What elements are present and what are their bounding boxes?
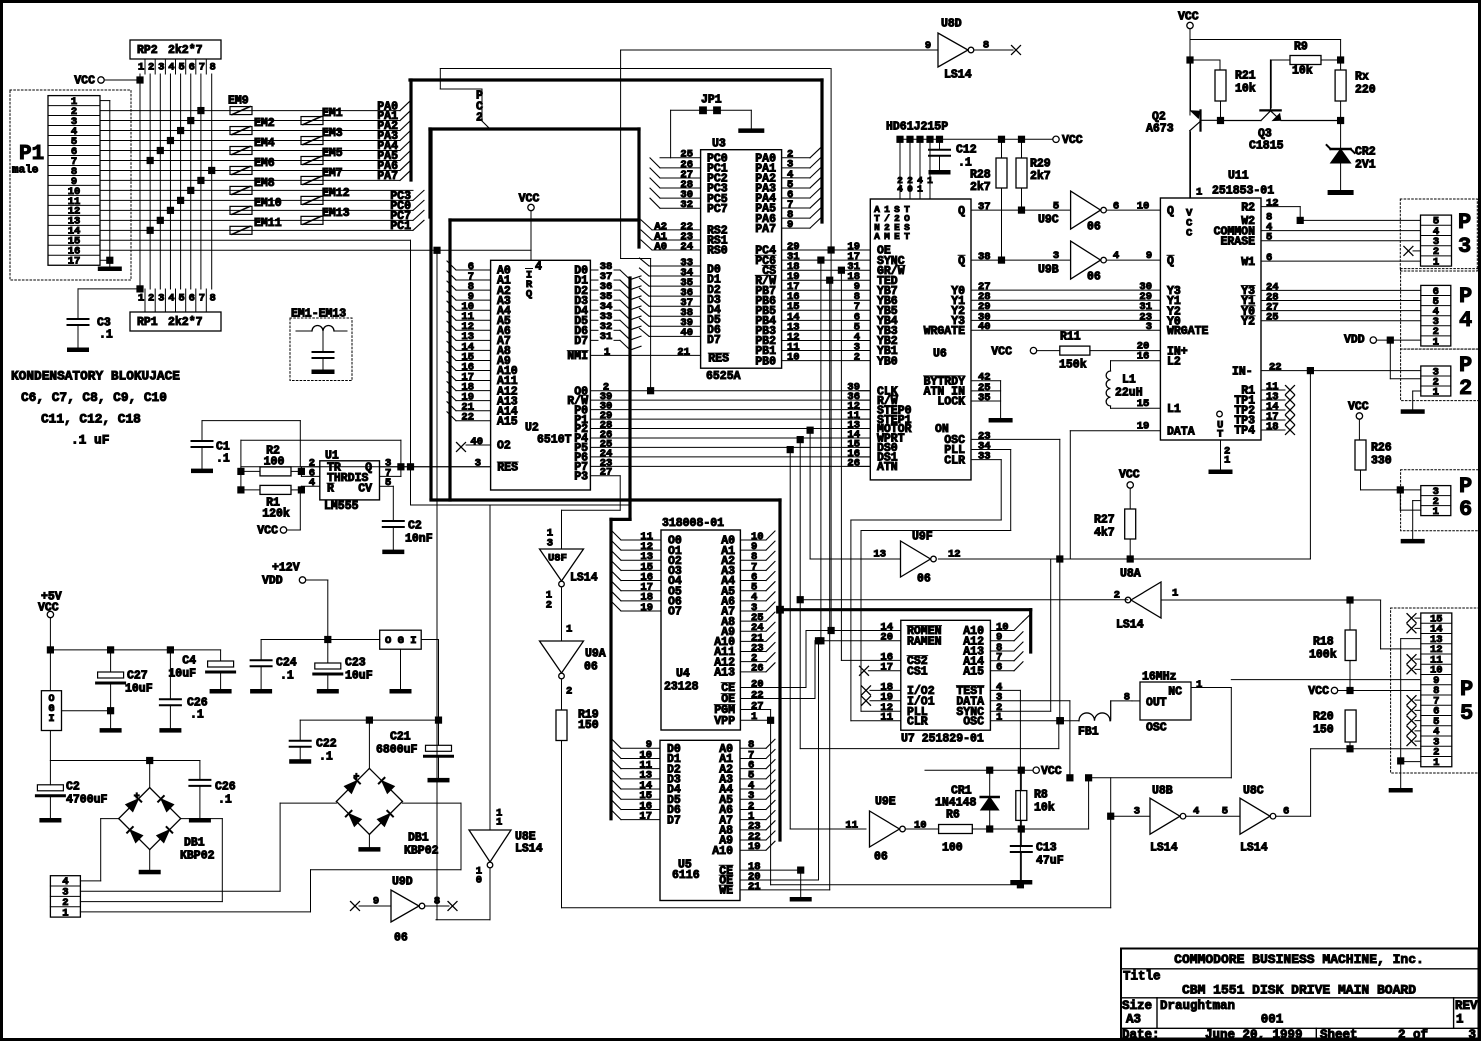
svg-text:19: 19 — [1137, 420, 1150, 432]
svg-text:26: 26 — [847, 457, 860, 469]
svg-text:001: 001 — [1261, 1013, 1284, 1027]
svg-text:EM2: EM2 — [254, 117, 275, 130]
svg-text:C6, C7, C8, C9, C10: C6, C7, C8, C9, C10 — [21, 390, 167, 405]
svg-text:RP2: RP2 — [137, 44, 158, 57]
svg-text:P: P — [1459, 284, 1472, 309]
svg-text:Title: Title — [1123, 970, 1161, 984]
svg-text:2: 2 — [148, 292, 154, 304]
svg-text:2: 2 — [546, 599, 552, 611]
svg-text:0: 0 — [907, 184, 913, 195]
svg-text:1: 1 — [1224, 454, 1230, 466]
svg-text:C11, C12, C18: C11, C12, C18 — [41, 412, 141, 427]
svg-text:4: 4 — [897, 184, 903, 195]
svg-text:5: 5 — [178, 292, 184, 304]
svg-text:VCC: VCC — [1178, 11, 1199, 24]
svg-text:U9E: U9E — [875, 796, 896, 809]
svg-text:U6: U6 — [933, 348, 947, 361]
svg-text:1: 1 — [996, 712, 1002, 724]
svg-text:6116: 6116 — [672, 869, 700, 882]
svg-text:RES: RES — [708, 353, 729, 366]
svg-text:1: 1 — [1196, 186, 1202, 198]
svg-text:4: 4 — [168, 292, 174, 304]
svg-text:6800uF: 6800uF — [376, 744, 418, 757]
svg-text:P: P — [1460, 677, 1473, 702]
svg-text:C26: C26 — [215, 781, 236, 794]
svg-text:EM12: EM12 — [322, 187, 350, 200]
svg-text:R2: R2 — [1241, 201, 1255, 214]
svg-text:DB1: DB1 — [184, 837, 205, 850]
svg-text:37: 37 — [978, 201, 991, 213]
svg-text:ERASE: ERASE — [1220, 235, 1255, 248]
svg-text:330: 330 — [1371, 455, 1392, 468]
svg-text:LM555: LM555 — [324, 500, 359, 513]
svg-text:2V1: 2V1 — [1355, 159, 1376, 172]
svg-text:4: 4 — [1113, 250, 1119, 262]
svg-text:10nF: 10nF — [405, 533, 433, 546]
svg-text:June 20, 1999: June 20, 1999 — [1205, 1028, 1303, 1041]
svg-text:9: 9 — [1146, 250, 1152, 262]
svg-text:U8B: U8B — [1152, 785, 1173, 798]
svg-text:18: 18 — [1266, 421, 1279, 433]
svg-text:9: 9 — [787, 219, 793, 231]
svg-text:JP1: JP1 — [701, 94, 722, 107]
svg-text:COMMODORE BUSINESS MACHINE, In: COMMODORE BUSINESS MACHINE, Inc. — [1174, 952, 1424, 967]
svg-text:U9F: U9F — [912, 531, 933, 544]
svg-text:Q: Q — [958, 205, 965, 218]
svg-text:5: 5 — [1053, 200, 1059, 212]
svg-text:Size: Size — [1122, 999, 1152, 1013]
svg-text:2: 2 — [148, 61, 154, 73]
svg-text:TP4: TP4 — [1234, 425, 1255, 438]
svg-text:17: 17 — [68, 256, 81, 268]
svg-text:1: 1 — [1456, 1013, 1464, 1027]
svg-text:4: 4 — [1193, 805, 1199, 817]
svg-text:A3: A3 — [1126, 1013, 1141, 1027]
svg-text:R27: R27 — [1094, 514, 1115, 527]
svg-text:6: 6 — [189, 292, 195, 304]
svg-text:22: 22 — [1269, 361, 1282, 373]
svg-text:L1: L1 — [1167, 403, 1181, 416]
svg-text:1: 1 — [917, 184, 923, 195]
svg-text:W1: W1 — [1241, 256, 1255, 269]
svg-text:U9C: U9C — [1038, 214, 1059, 227]
svg-text:6: 6 — [1283, 805, 1289, 817]
svg-text:40: 40 — [978, 321, 991, 333]
svg-text:OSC: OSC — [1146, 722, 1167, 735]
svg-text:.1: .1 — [99, 329, 113, 342]
svg-text:9: 9 — [925, 40, 931, 52]
svg-text:EM13: EM13 — [322, 207, 350, 220]
svg-text:O2: O2 — [497, 440, 511, 453]
svg-text:47uF: 47uF — [1036, 855, 1064, 868]
svg-text:3: 3 — [475, 458, 481, 470]
svg-text:U8D: U8D — [941, 18, 962, 31]
svg-text:L2: L2 — [1167, 355, 1181, 368]
svg-text:C21: C21 — [390, 731, 411, 744]
svg-text:KBP02: KBP02 — [404, 845, 439, 858]
svg-text:40: 40 — [470, 436, 483, 448]
svg-text:CLR: CLR — [907, 715, 928, 728]
svg-text:Q: Q — [958, 255, 965, 268]
svg-text:REV: REV — [1455, 999, 1478, 1013]
svg-text:10uF: 10uF — [345, 670, 373, 683]
svg-text:NC: NC — [1168, 686, 1182, 699]
svg-text:Rx: Rx — [1355, 71, 1369, 84]
svg-text:A: A — [874, 231, 880, 242]
svg-text:U9A: U9A — [585, 648, 606, 661]
svg-text:DATA: DATA — [1167, 425, 1195, 438]
svg-text:1: 1 — [138, 61, 144, 73]
svg-text:CBM 1551 DISK DRIVE MAIN BOARD: CBM 1551 DISK DRIVE MAIN BOARD — [1182, 983, 1416, 998]
svg-text:5: 5 — [1222, 805, 1228, 817]
svg-text:CLR: CLR — [944, 454, 965, 467]
svg-text:P1: P1 — [19, 143, 44, 166]
svg-text:6: 6 — [1459, 497, 1472, 522]
svg-text:U9B: U9B — [1038, 264, 1059, 277]
svg-text:2k2*7: 2k2*7 — [168, 316, 203, 329]
svg-text:RP1: RP1 — [137, 316, 158, 329]
svg-text:U3: U3 — [712, 138, 726, 151]
svg-text:EM6: EM6 — [254, 157, 275, 170]
svg-text:R26: R26 — [1371, 442, 1392, 455]
svg-text:.1: .1 — [280, 670, 294, 683]
svg-text:OUT: OUT — [1146, 697, 1167, 710]
svg-text:EM10: EM10 — [254, 197, 282, 210]
svg-text:U9D: U9D — [392, 876, 413, 889]
svg-text:100: 100 — [942, 842, 963, 855]
svg-text:DB1: DB1 — [408, 832, 429, 845]
svg-text:O7: O7 — [668, 606, 682, 619]
svg-text:WRGATE: WRGATE — [924, 325, 966, 338]
svg-text:PC1: PC1 — [390, 220, 411, 233]
svg-text:10uF: 10uF — [168, 668, 196, 681]
svg-text:LS14: LS14 — [570, 572, 598, 585]
svg-text:10: 10 — [787, 351, 800, 363]
svg-text:40: 40 — [680, 327, 693, 339]
svg-text:PB0: PB0 — [755, 355, 776, 368]
svg-text:20: 20 — [880, 632, 893, 644]
svg-text:1: 1 — [138, 292, 144, 304]
svg-text:4: 4 — [535, 261, 542, 274]
svg-text:3: 3 — [1134, 805, 1140, 817]
svg-text:RS0: RS0 — [707, 245, 728, 258]
svg-text:U8A: U8A — [1120, 568, 1141, 581]
svg-text:1: 1 — [1433, 506, 1439, 518]
svg-text:VCC: VCC — [1041, 765, 1062, 778]
svg-text:25: 25 — [1266, 312, 1279, 324]
svg-text:P: P — [1459, 474, 1472, 499]
svg-text:VCC: VCC — [991, 345, 1012, 358]
svg-text:8: 8 — [434, 895, 440, 907]
svg-text:16: 16 — [1137, 350, 1150, 362]
svg-text:KBP02: KBP02 — [180, 850, 215, 863]
svg-text:EM1-EM13: EM1-EM13 — [291, 308, 346, 321]
svg-text:12: 12 — [948, 548, 961, 560]
svg-text:CV: CV — [358, 483, 372, 496]
svg-text:EM4: EM4 — [254, 137, 275, 150]
svg-text:4: 4 — [309, 477, 315, 489]
svg-text:15: 15 — [1137, 398, 1150, 410]
svg-text:6525A: 6525A — [706, 370, 741, 383]
svg-text:D7: D7 — [707, 334, 721, 347]
svg-text:C4: C4 — [182, 655, 196, 668]
svg-text:6: 6 — [1266, 252, 1272, 264]
svg-text:EM8: EM8 — [254, 177, 275, 190]
svg-text:EM3: EM3 — [322, 127, 343, 140]
svg-text:.1: .1 — [218, 794, 232, 807]
svg-text:C23: C23 — [345, 657, 366, 670]
svg-text:5: 5 — [1460, 701, 1473, 726]
svg-text:5: 5 — [178, 61, 184, 73]
svg-text:1: 1 — [1196, 679, 1202, 691]
svg-text:1: 1 — [566, 623, 572, 635]
svg-text:3: 3 — [1146, 321, 1152, 333]
svg-text:T: T — [904, 231, 910, 242]
svg-text:A673: A673 — [1146, 123, 1174, 136]
svg-text:5: 5 — [385, 477, 391, 489]
svg-text:1: 1 — [496, 816, 502, 828]
svg-text:4: 4 — [168, 61, 174, 73]
svg-text:R8: R8 — [1034, 789, 1048, 802]
svg-text:YB0: YB0 — [877, 355, 898, 368]
svg-text:23128: 23128 — [664, 681, 699, 694]
svg-text:I: I — [48, 714, 54, 725]
svg-text:VCC: VCC — [1308, 685, 1329, 698]
svg-text:.1 uF: .1 uF — [71, 433, 109, 448]
svg-text:31: 31 — [600, 331, 613, 343]
svg-text:251853-01: 251853-01 — [1212, 185, 1274, 198]
svg-text:A15: A15 — [497, 415, 518, 428]
svg-text:8: 8 — [1124, 691, 1130, 703]
svg-text:06: 06 — [394, 932, 408, 945]
svg-text:06: 06 — [874, 851, 888, 864]
svg-text:R29: R29 — [1030, 158, 1051, 171]
svg-text:2: 2 — [566, 685, 572, 697]
svg-text:VCC: VCC — [1062, 134, 1083, 147]
svg-text:VPP: VPP — [714, 715, 735, 728]
svg-text:06: 06 — [1087, 221, 1101, 234]
svg-text:10k: 10k — [1292, 65, 1313, 78]
svg-text:VDD: VDD — [1344, 334, 1365, 347]
svg-text:.1: .1 — [319, 751, 333, 764]
svg-text:C12: C12 — [956, 144, 977, 157]
svg-text:C2: C2 — [66, 781, 80, 794]
svg-text:A13: A13 — [714, 667, 735, 680]
svg-text:OSC: OSC — [963, 715, 984, 728]
svg-text:2: 2 — [1459, 376, 1472, 401]
svg-text:1: 1 — [604, 346, 610, 358]
svg-text:C24: C24 — [276, 657, 297, 670]
svg-text:R: R — [327, 483, 334, 496]
svg-text:VCC: VCC — [74, 75, 95, 88]
svg-text:2 of: 2 of — [1398, 1028, 1428, 1041]
svg-text:R11: R11 — [1060, 331, 1081, 344]
svg-text:21: 21 — [748, 881, 761, 893]
svg-text:WRGATE: WRGATE — [1167, 325, 1209, 338]
svg-text:VDD: VDD — [262, 575, 283, 588]
svg-text:2k7: 2k7 — [1030, 170, 1051, 183]
svg-text:E: E — [894, 231, 900, 242]
svg-text:100k: 100k — [1309, 649, 1337, 662]
svg-text:C13: C13 — [1036, 842, 1057, 855]
svg-text:C22: C22 — [316, 738, 337, 751]
svg-text:2: 2 — [854, 351, 860, 363]
svg-text:EM9: EM9 — [228, 94, 249, 107]
svg-text:10k: 10k — [1034, 802, 1055, 815]
svg-text:R20: R20 — [1313, 711, 1334, 724]
svg-text:3: 3 — [158, 292, 164, 304]
svg-text:PA7: PA7 — [377, 170, 398, 183]
svg-text:male: male — [12, 165, 39, 177]
svg-text:11: 11 — [845, 819, 858, 831]
svg-text:8: 8 — [210, 292, 216, 304]
svg-text:1: 1 — [1433, 256, 1439, 268]
svg-text:VCC: VCC — [519, 193, 540, 206]
svg-text:PA7: PA7 — [755, 223, 776, 236]
svg-text:U7 251829-01: U7 251829-01 — [901, 732, 984, 745]
svg-text:.1: .1 — [216, 453, 230, 466]
svg-text:C1815: C1815 — [1249, 140, 1284, 153]
svg-text:+: + — [353, 773, 359, 784]
svg-text:4700uF: 4700uF — [66, 794, 108, 807]
svg-text:.1: .1 — [190, 709, 204, 722]
svg-text:4k7: 4k7 — [1094, 527, 1115, 540]
svg-text:Y2: Y2 — [1241, 315, 1255, 328]
svg-text:U8C: U8C — [1243, 785, 1264, 798]
svg-text:VCC: VCC — [1119, 469, 1140, 482]
svg-text:P3: P3 — [574, 470, 588, 483]
svg-text:33: 33 — [978, 450, 991, 462]
svg-text:7: 7 — [199, 292, 205, 304]
svg-text:150k: 150k — [1059, 359, 1087, 372]
svg-text:P: P — [1458, 210, 1471, 235]
svg-text:EM5: EM5 — [322, 147, 343, 160]
svg-text:FB1: FB1 — [1078, 726, 1099, 739]
svg-text:19: 19 — [748, 841, 761, 853]
svg-text:T: T — [1217, 428, 1223, 440]
svg-text:22: 22 — [461, 412, 474, 424]
svg-text:L1: L1 — [1122, 374, 1136, 387]
svg-text:5: 5 — [1266, 232, 1272, 244]
svg-text:PC7: PC7 — [707, 203, 728, 216]
svg-text:17: 17 — [880, 662, 893, 674]
svg-text:1: 1 — [1433, 757, 1439, 769]
svg-text:10: 10 — [1137, 200, 1150, 212]
svg-text:Q: Q — [526, 288, 532, 300]
svg-text:LS14: LS14 — [1240, 842, 1268, 855]
svg-text:O G I: O G I — [385, 635, 417, 647]
svg-text:A10: A10 — [712, 845, 733, 858]
svg-text:R28: R28 — [970, 169, 991, 182]
svg-text:6: 6 — [996, 662, 1002, 674]
svg-text:1: 1 — [751, 711, 757, 723]
svg-text:R21: R21 — [1235, 70, 1256, 83]
svg-text:LS14: LS14 — [1150, 842, 1178, 855]
svg-text:7: 7 — [199, 61, 205, 73]
svg-text:1: 1 — [1433, 386, 1439, 398]
svg-text:0: 0 — [476, 874, 482, 886]
svg-text:2k2*7: 2k2*7 — [168, 44, 203, 57]
svg-text:12: 12 — [1266, 197, 1279, 209]
svg-text:1: 1 — [927, 175, 933, 186]
svg-text:06: 06 — [1087, 271, 1101, 284]
svg-text:KONDENSATORY BLOKUJACE: KONDENSATORY BLOKUJACE — [11, 369, 180, 384]
svg-text:4: 4 — [1459, 308, 1472, 333]
svg-text:RAMEN: RAMEN — [907, 635, 942, 648]
svg-text:38: 38 — [978, 251, 991, 263]
svg-text:8: 8 — [210, 61, 216, 73]
svg-text:150: 150 — [578, 719, 599, 732]
svg-text:NMI: NMI — [567, 350, 588, 363]
svg-text:1: 1 — [1172, 587, 1178, 599]
svg-text:1: 1 — [1433, 336, 1439, 348]
svg-text:32: 32 — [680, 199, 693, 211]
svg-text:8: 8 — [983, 39, 989, 51]
svg-text:U11: U11 — [1228, 170, 1249, 183]
svg-text:10k: 10k — [1235, 83, 1256, 96]
svg-text:IN-: IN- — [1232, 365, 1253, 378]
svg-text:R9: R9 — [1294, 41, 1308, 54]
svg-text:+: + — [134, 792, 140, 803]
svg-text:C27: C27 — [127, 670, 148, 683]
svg-text:Q: Q — [1167, 205, 1174, 218]
svg-text:6: 6 — [189, 61, 195, 73]
svg-text:3: 3 — [547, 537, 553, 549]
svg-text:9: 9 — [373, 895, 379, 907]
svg-text:2k7: 2k7 — [970, 181, 991, 194]
svg-text:1: 1 — [62, 907, 68, 919]
svg-text:LS14: LS14 — [515, 843, 543, 856]
svg-text:U8F: U8F — [548, 552, 567, 564]
svg-text:A0: A0 — [654, 241, 667, 253]
svg-text:120k: 120k — [262, 508, 290, 521]
svg-text:HD61J215P: HD61J215P — [886, 120, 948, 133]
svg-text:Q: Q — [1167, 255, 1174, 268]
svg-text:6: 6 — [1113, 200, 1119, 212]
svg-text:6510T: 6510T — [537, 434, 572, 447]
svg-text:10: 10 — [914, 819, 927, 831]
svg-text:06: 06 — [917, 573, 931, 586]
svg-text:WE: WE — [719, 885, 733, 898]
svg-text:100: 100 — [264, 456, 285, 469]
svg-text:Date:: Date: — [1122, 1028, 1160, 1041]
svg-text:EM7: EM7 — [322, 167, 343, 180]
svg-text:P: P — [1459, 353, 1472, 378]
svg-text:3: 3 — [1468, 1028, 1476, 1041]
svg-text:LOCK: LOCK — [937, 396, 965, 409]
svg-text:35: 35 — [978, 392, 991, 404]
svg-text:21: 21 — [677, 346, 690, 358]
svg-text:27: 27 — [600, 467, 613, 479]
svg-text:318008-01: 318008-01 — [662, 517, 724, 530]
svg-text:A15: A15 — [963, 665, 984, 678]
svg-text:LS14: LS14 — [944, 69, 972, 82]
svg-text:3: 3 — [1458, 234, 1471, 259]
svg-text:M: M — [884, 231, 890, 242]
svg-text:CS1: CS1 — [907, 665, 928, 678]
svg-text:R18: R18 — [1313, 636, 1334, 649]
svg-text:17: 17 — [639, 810, 652, 822]
svg-text:3: 3 — [1053, 250, 1059, 262]
svg-text:26: 26 — [751, 663, 764, 675]
svg-text:06: 06 — [584, 661, 598, 674]
svg-text:19: 19 — [640, 602, 653, 614]
svg-text:3: 3 — [158, 61, 164, 73]
svg-text:C2: C2 — [408, 520, 422, 533]
svg-text:VCC: VCC — [1348, 401, 1369, 414]
svg-text:C: C — [1186, 227, 1193, 239]
svg-text:Draughtman: Draughtman — [1160, 999, 1235, 1013]
